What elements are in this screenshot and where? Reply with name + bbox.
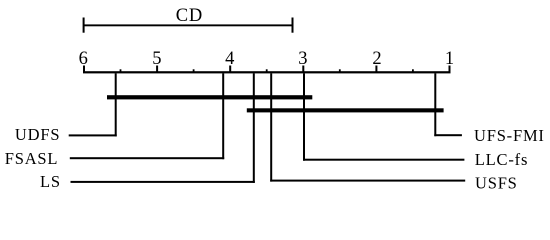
axis line (83, 71, 451, 73)
svg-text:UFS-FMI: UFS-FMI (474, 126, 545, 145)
LS connector (71, 181, 255, 183)
major tick 1 (449, 66, 451, 73)
major tick 2 (375, 66, 377, 73)
svg-text:5: 5 (152, 49, 161, 69)
svg-text:6: 6 (79, 49, 88, 69)
LS drop line (253, 73, 255, 182)
clique bar 2 (LS..UFS-FMI) (247, 108, 444, 112)
svg-text:LLC-fs: LLC-fs (475, 150, 528, 169)
minor tick 3.5 (266, 69, 268, 73)
svg-text:LS: LS (40, 172, 61, 191)
USFS connector (270, 180, 465, 182)
UDFS drop line (115, 73, 117, 136)
minor tick 4.5 (193, 69, 195, 73)
clique bar 1 (UDFS..LLC-fs) (107, 95, 312, 99)
major tick 5 (156, 66, 158, 73)
major tick 4 (229, 66, 231, 73)
major tick 6 (83, 66, 85, 73)
minor tick 5.5 (120, 69, 122, 73)
svg-text:1: 1 (445, 49, 454, 69)
minor tick 1.5 (412, 69, 414, 73)
USFS drop line (270, 73, 272, 181)
svg-text:3: 3 (298, 49, 307, 69)
LLC-fs drop line (303, 73, 305, 160)
UDFS connector (69, 134, 117, 136)
svg-text:CD: CD (176, 6, 203, 26)
LLC-fs connector (303, 159, 464, 161)
major tick 3 (302, 66, 304, 73)
FSASL connector (70, 157, 224, 159)
svg-text:FSASL: FSASL (5, 149, 59, 168)
svg-text:4: 4 (225, 49, 234, 69)
CD interval left cap (83, 18, 85, 33)
CD interval right cap (292, 18, 294, 33)
CD interval bar (84, 24, 293, 26)
svg-text:UDFS: UDFS (15, 125, 60, 144)
minor tick 2.5 (339, 69, 341, 73)
svg-text:2: 2 (372, 49, 381, 69)
FSASL drop line (222, 73, 224, 159)
svg-text:USFS: USFS (475, 174, 518, 193)
UFS-FMI connector (434, 134, 462, 136)
UFS-FMI drop line (434, 73, 436, 136)
